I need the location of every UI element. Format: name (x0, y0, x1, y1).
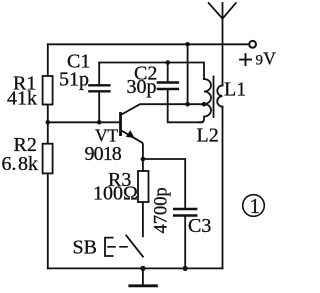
label +9V (240, 54, 251, 65)
node: collector junction (185, 102, 190, 107)
svg-text:L1: L1 (224, 79, 246, 101)
node: base junction on left rail (46, 120, 51, 125)
capacitor C1 (89, 63, 109, 123)
wire: top +9V rail (48, 43, 249, 45)
circled figure number 1 (243, 194, 265, 218)
switch SB blade (126, 236, 143, 257)
transistor VT emitter arrow (126, 130, 135, 138)
antenna (209, 3, 236, 19)
svg-text:SB: SB (73, 236, 97, 258)
capacitor C2 (158, 63, 202, 123)
wire: left rail (47, 44, 49, 268)
svg-text:30p: 30p (127, 76, 157, 98)
node: emitter junction (141, 157, 146, 162)
svg-text:51p: 51p (59, 68, 89, 90)
resistor R2 (43, 144, 53, 174)
node: C1 bottom junction (97, 120, 102, 125)
transistor VT emitter (121, 130, 143, 159)
inductor L1 (217, 85, 222, 106)
wire: base wire (48, 121, 120, 123)
wire: collector to tap (121, 104, 205, 115)
capacitor C3 (174, 209, 196, 268)
svg-text:100Ω: 100Ω (93, 183, 138, 205)
node: C2 top junction (165, 60, 170, 65)
wire: bottom rail (48, 267, 223, 269)
svg-text:C3: C3 (188, 215, 211, 237)
wire: antenna down-lead lower (222, 107, 224, 269)
ground (130, 268, 157, 285)
svg-text:9V: 9V (256, 49, 277, 69)
inductor L2 (199, 79, 211, 122)
terminal: +9V supply (249, 41, 256, 48)
wire: antenna down-lead upper (222, 3, 224, 85)
wire: emitter branch to C3 (143, 159, 185, 209)
switch SB button (105, 238, 113, 256)
resistor R1 (43, 76, 53, 105)
svg-text:4700p: 4700p (151, 187, 171, 233)
node: switch bottom junction (140, 266, 145, 271)
wire: tank top (99, 63, 204, 80)
svg-text:1: 1 (250, 194, 261, 218)
transistor VT base bar (119, 114, 122, 135)
node: +9V rail junction (185, 42, 190, 47)
node: L2 tap (202, 102, 207, 107)
transformer core (213, 77, 215, 118)
switch SB actuator dashes (108, 246, 132, 248)
svg-text:L2: L2 (197, 125, 219, 147)
node: C3 bottom junction (183, 266, 188, 271)
resistor R3 (138, 171, 149, 202)
svg-text:9018: 9018 (85, 143, 122, 165)
wire: emitter down through R3 to switch (142, 159, 144, 236)
svg-text:41k: 41k (7, 88, 37, 110)
svg-text:6.8k: 6.8k (2, 153, 39, 175)
wire: +9V drop to collector (187, 44, 189, 104)
